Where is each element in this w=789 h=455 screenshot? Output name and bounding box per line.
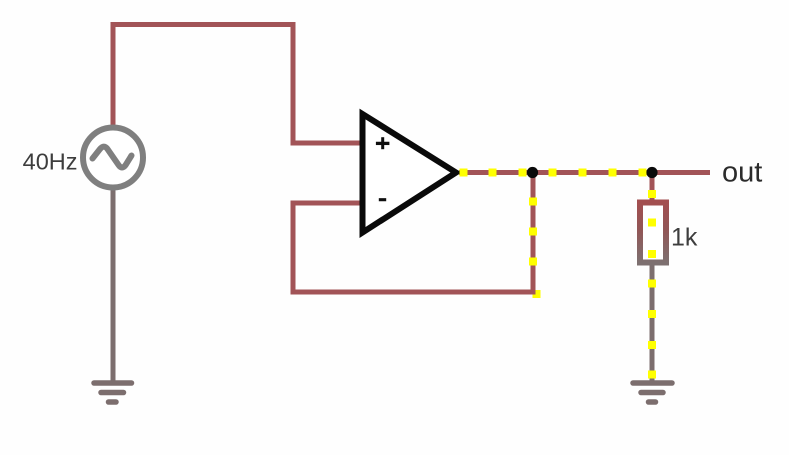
current dash (552,172.5) (549, 169, 557, 177)
junction node A (527, 167, 538, 178)
current dash (612,172.5) (609, 169, 617, 177)
current dash (582,172.5) (579, 169, 587, 177)
current dash (642,172.5) (639, 169, 647, 177)
wire: top loop from source top to op-amp + input (113, 25, 366, 144)
current dash (652,374.5) (648, 371, 656, 379)
current dash (522,172.5) (519, 169, 527, 177)
op-amp U1 triangle (363, 114, 457, 233)
wire: resistor bottom to right ground (650, 263, 655, 383)
current dash (652,314) (648, 310, 656, 318)
current dash vertical branch (533,201.5) (529, 198, 537, 206)
wire: feedback loop from op-amp - input to junction A vertical (293, 173, 533, 292)
AC voltage source V1 (83, 128, 143, 188)
svg-text:out: out (722, 157, 762, 189)
current dash (533,261.5) (529, 258, 537, 266)
current dash inside resistor (652,222.5) (648, 219, 656, 227)
wire: source bottom to left ground (111, 188, 116, 383)
sine symbol inside V1 (93, 147, 132, 168)
current dash (533,231.5) (529, 228, 537, 236)
current dash (463,172.5) (460, 169, 468, 177)
wire: op-amp output to out terminal (459, 170, 710, 175)
svg-text:40Hz: 40Hz (23, 149, 78, 175)
current dash (652,283.5) (648, 280, 656, 288)
wire: junction B down to resistor top (650, 173, 655, 203)
op-amp - input marker (379, 198, 386, 201)
current dash (492,172.5) (489, 169, 497, 177)
svg-text:1k: 1k (671, 224, 698, 252)
current dash (652,194) (648, 190, 656, 198)
current dash (652,345) (648, 341, 656, 349)
resistor R1 1k body (640, 203, 666, 263)
current dash inside resistor (652,254) (648, 250, 656, 258)
ground GND2 (right) (633, 383, 672, 402)
ground GND1 (left) (94, 383, 132, 402)
op-amp + input marker (376, 137, 390, 149)
junction node B (646, 167, 657, 178)
current dash at feedback corner (536,294) (533, 290, 541, 298)
